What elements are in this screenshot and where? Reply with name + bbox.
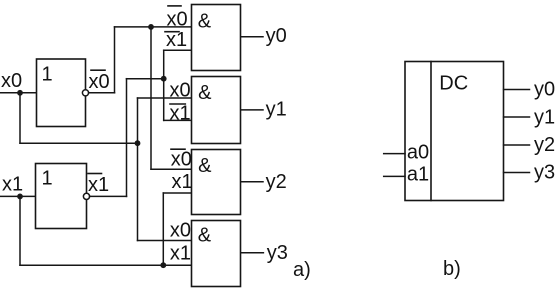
svg-text:&: & bbox=[198, 155, 212, 177]
wire U1 y3 stub bbox=[504, 172, 530, 174]
svg-text:y3: y3 bbox=[267, 242, 288, 264]
inverter DD2 bubble bbox=[83, 193, 89, 199]
label NOT-x1 overbar bbox=[88, 173, 102, 175]
wire x0 to D2 input 1 bbox=[138, 97, 192, 99]
wire NOT-x1 across bbox=[127, 78, 164, 80]
svg-text:x1: x1 bbox=[2, 174, 23, 196]
svg-text:y0: y0 bbox=[534, 79, 555, 101]
svg-text:x1: x1 bbox=[88, 174, 109, 196]
wire x0 rail vertical bbox=[137, 98, 139, 241]
label D3 input1 overbar bbox=[171, 148, 185, 150]
node x0 junction bbox=[17, 90, 23, 96]
wire U1 y2 stub bbox=[504, 144, 530, 146]
svg-text:y0: y0 bbox=[266, 25, 287, 47]
svg-text:y2: y2 bbox=[534, 134, 555, 156]
wire NOT-x0 up bbox=[114, 27, 116, 93]
svg-text:x1: x1 bbox=[170, 102, 191, 124]
AND gate D1 box bbox=[192, 5, 241, 71]
label D1 input2 overbar bbox=[165, 31, 179, 33]
svg-text:x1: x1 bbox=[172, 171, 193, 193]
label D2 input2 overbar bbox=[170, 103, 185, 105]
wire y2 output bbox=[241, 181, 263, 183]
svg-text:x0: x0 bbox=[89, 71, 110, 93]
inverter DD1 box bbox=[37, 59, 86, 127]
AND gate D4 box bbox=[192, 221, 241, 287]
wire x1 riser bbox=[162, 193, 164, 265]
wire x0 down bbox=[19, 93, 21, 143]
wire NOT-x0 to D1 input 1 bbox=[115, 26, 192, 28]
wire y1 output bbox=[241, 109, 263, 111]
svg-text:1: 1 bbox=[42, 167, 53, 189]
svg-text:x1: x1 bbox=[170, 243, 191, 265]
wire NOT-x0 to D3 input 1 bbox=[151, 168, 191, 170]
svg-text:x0: x0 bbox=[167, 8, 188, 30]
wire a0 stub bbox=[384, 153, 405, 155]
svg-text:&: & bbox=[198, 225, 212, 247]
node NOT-x0 junction bbox=[148, 24, 154, 30]
svg-text:DC: DC bbox=[439, 73, 468, 95]
decoder U1 divider bbox=[430, 62, 432, 201]
svg-text:x0: x0 bbox=[171, 149, 192, 171]
wire NOT-x1 rail vertical bbox=[163, 50, 165, 120]
wire NOT-x1 to D2 input 2 bbox=[164, 119, 191, 121]
svg-text:y3: y3 bbox=[534, 162, 555, 184]
svg-text:y1: y1 bbox=[266, 99, 287, 121]
wire U1 y0 stub bbox=[504, 89, 530, 91]
node x0 rail junction bbox=[135, 140, 141, 146]
wire x0 to D4 input 1 bbox=[138, 240, 192, 242]
wire y3 output bbox=[241, 252, 263, 254]
wire U1 y1 stub bbox=[504, 116, 530, 118]
node x1 junction bbox=[17, 194, 23, 200]
AND gate D2 box bbox=[192, 77, 241, 144]
wire NOT-x1 up bbox=[126, 79, 128, 197]
node NOT-x1 rail junction bbox=[161, 76, 167, 82]
wire x1 to D3 input 2 bbox=[163, 192, 191, 194]
svg-text:y1: y1 bbox=[534, 106, 555, 128]
wire NOT-x1 output bbox=[90, 195, 127, 197]
svg-text:&: & bbox=[198, 82, 212, 104]
inverter DD1 bubble bbox=[82, 90, 88, 96]
svg-text:&: & bbox=[198, 11, 212, 33]
node x1 riser junction bbox=[160, 262, 166, 268]
svg-text:y2: y2 bbox=[266, 171, 287, 193]
wire y0 output bbox=[241, 36, 263, 38]
wire x0 input bbox=[0, 92, 37, 94]
svg-text:1: 1 bbox=[42, 63, 53, 85]
wire a1 stub bbox=[384, 175, 405, 177]
wire x1 bottom to D4 input 2 bbox=[20, 264, 191, 266]
svg-text:a): a) bbox=[293, 259, 311, 281]
inverter DD2 box bbox=[36, 164, 87, 229]
label NOT-x0 overbar bbox=[91, 69, 105, 71]
wire NOT-x1 to D1 input 2 bbox=[164, 49, 191, 51]
svg-text:x0: x0 bbox=[170, 80, 191, 102]
decoder U1 box bbox=[405, 62, 504, 201]
svg-text:a0: a0 bbox=[407, 141, 429, 163]
wire NOT-x0 rail down bbox=[150, 27, 152, 169]
wire x0 across bbox=[20, 142, 138, 144]
svg-text:b): b) bbox=[443, 258, 461, 280]
svg-text:a1: a1 bbox=[407, 164, 429, 186]
AND gate D3 box bbox=[192, 150, 241, 215]
wire x1 input bbox=[0, 195, 36, 197]
svg-text:x0: x0 bbox=[1, 70, 22, 92]
svg-text:x1: x1 bbox=[166, 29, 187, 51]
wire x1 down bbox=[19, 196, 21, 265]
wire NOT-x0 output bbox=[89, 92, 115, 94]
svg-text:x0: x0 bbox=[170, 219, 191, 241]
label D1 input1 overbar bbox=[168, 5, 181, 7]
